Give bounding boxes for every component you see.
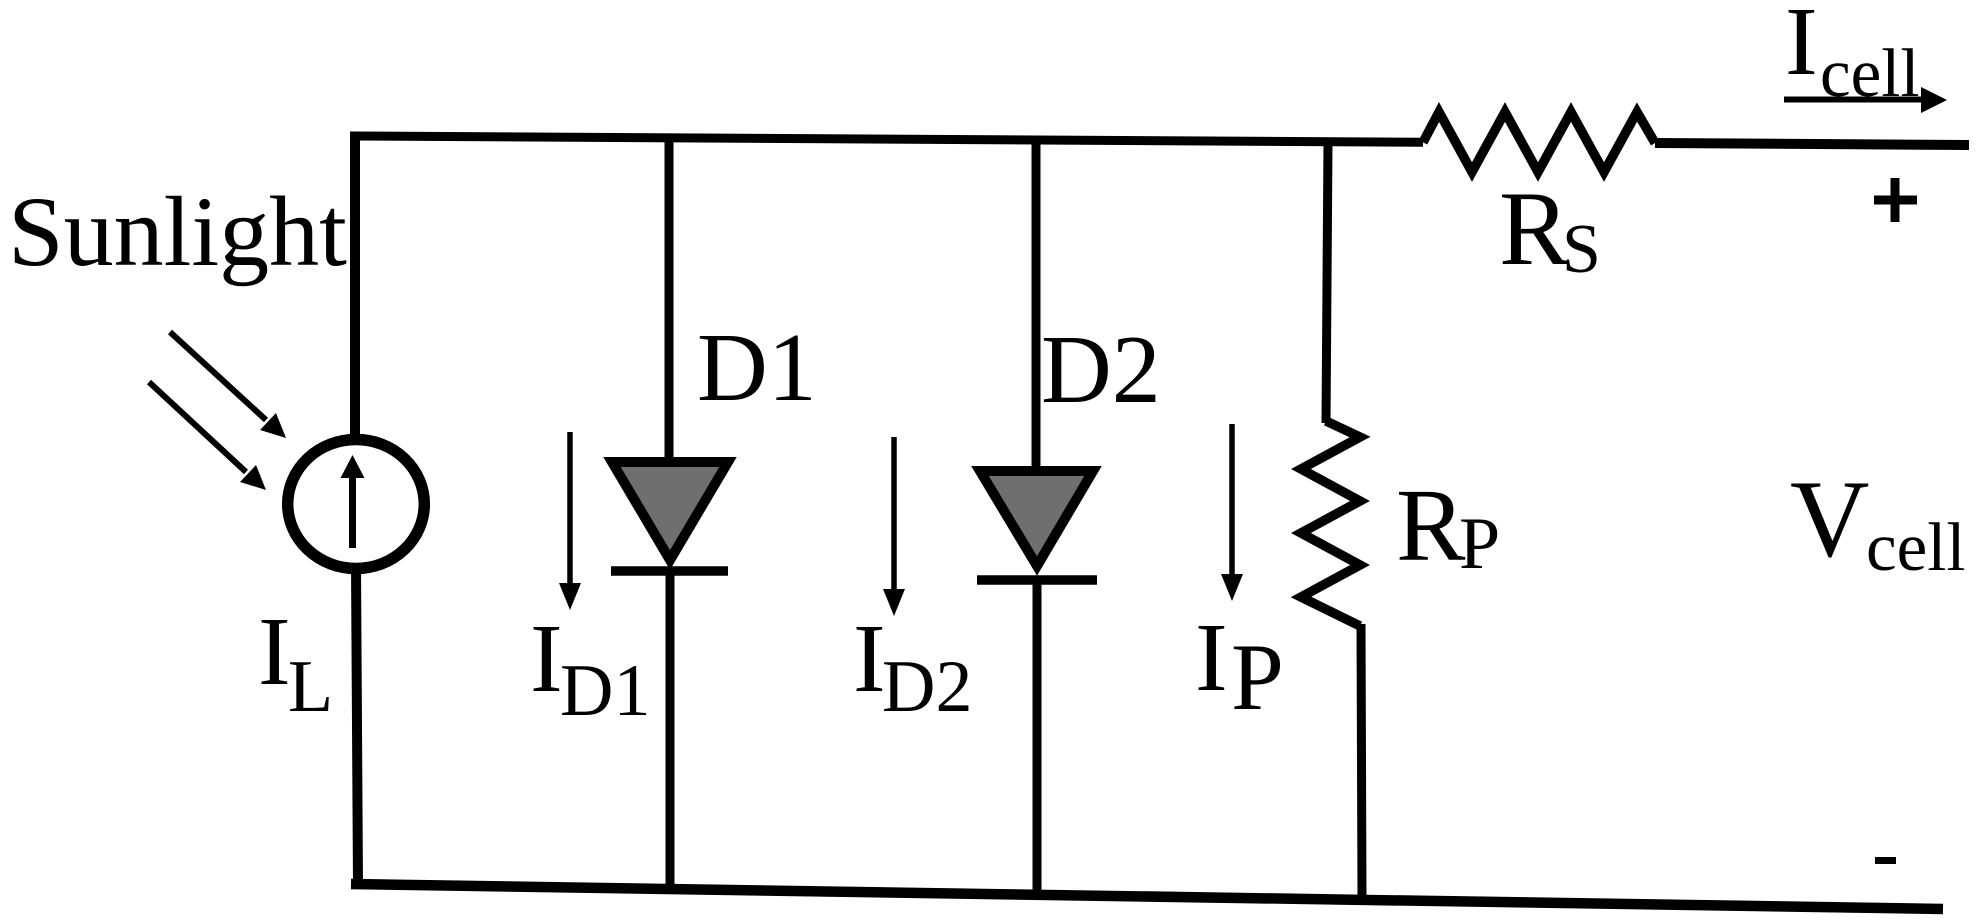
svg-text:D1: D1 — [697, 314, 817, 422]
diode D2 cathode bar — [977, 575, 1097, 585]
svg-text:P: P — [1459, 503, 1500, 585]
current arrow ID1 — [567, 432, 573, 586]
svg-text:L: L — [288, 646, 333, 728]
diode D1 — [612, 462, 728, 560]
wire RP branch bottom — [1361, 624, 1362, 899]
sunlight ray arrow 1 — [170, 332, 266, 420]
svg-text:R: R — [1396, 468, 1466, 583]
current source IL circle — [288, 440, 425, 569]
wire D1 branch top — [665, 137, 674, 466]
diode D2 — [980, 471, 1093, 566]
svg-text:I: I — [853, 605, 886, 713]
wire left vertical (bottom) — [356, 566, 358, 886]
sunlight ray arrow 2 — [149, 382, 246, 472]
resistor RS zigzag — [1423, 112, 1655, 172]
diode D1 cathode bar — [611, 566, 728, 576]
label plus terminal — [1874, 196, 1917, 205]
svg-text:D2: D2 — [882, 646, 972, 728]
svg-text:V: V — [1790, 458, 1869, 580]
svg-text:cell: cell — [1866, 509, 1966, 585]
svg-text:D2: D2 — [1041, 316, 1161, 424]
svg-text:R: R — [1499, 170, 1570, 287]
wire bottom horizontal bus — [351, 884, 1943, 909]
svg-text:P: P — [1231, 624, 1284, 730]
wire top horizontal bus — [355, 136, 1423, 142]
svg-text:I: I — [1195, 604, 1228, 712]
wire Icell arrow — [1784, 97, 1926, 103]
wire D1 branch bottom — [666, 571, 675, 889]
label minus terminal — [1875, 857, 1896, 864]
wire left vertical (top) — [350, 132, 360, 441]
wire D2 branch bottom — [1033, 580, 1042, 893]
resistor RP zigzag — [1301, 421, 1360, 626]
current source arrow — [349, 472, 356, 548]
wire top right output — [1655, 143, 1969, 145]
svg-text:D1: D1 — [560, 650, 650, 732]
svg-text:Sunlight: Sunlight — [8, 176, 347, 287]
wire D2 branch top — [1032, 139, 1041, 474]
svg-text:I: I — [258, 598, 291, 706]
svg-text:I: I — [530, 605, 563, 713]
current arrow IP — [1229, 424, 1235, 577]
wire RP branch top — [1326, 142, 1328, 423]
current arrow ID2 — [891, 437, 897, 592]
svg-text:I: I — [1785, 0, 1818, 96]
svg-text:S: S — [1562, 211, 1601, 288]
